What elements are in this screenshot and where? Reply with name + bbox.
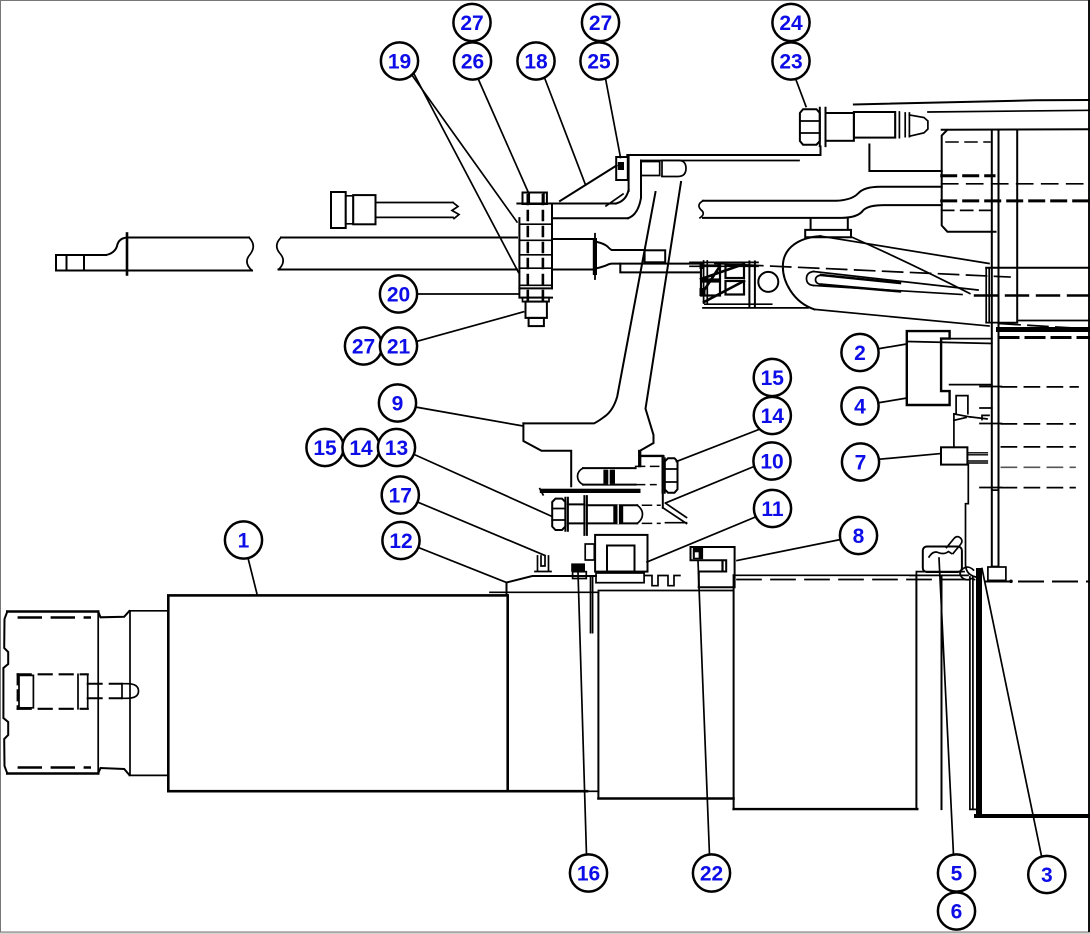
- svg-text:6: 6: [951, 901, 963, 924]
- svg-text:24: 24: [779, 12, 803, 35]
- grease hole circle: [758, 272, 778, 292]
- balloon 13: [378, 429, 415, 466]
- leader 3: [982, 569, 1042, 857]
- bolt items 23/24 top right: [800, 108, 928, 146]
- leader 9: [416, 407, 524, 426]
- balloon 19: [381, 42, 418, 79]
- leader 18: [545, 79, 585, 184]
- balloon 16: [570, 854, 607, 891]
- leader 10: [666, 467, 755, 504]
- rod left section with clevis end: [56, 234, 253, 275]
- svg-text:17: 17: [389, 485, 412, 508]
- top plate right: [854, 100, 1090, 171]
- balloon 18: [517, 42, 554, 79]
- svg-text:25: 25: [587, 51, 611, 74]
- seal black item 22 target: [693, 548, 703, 559]
- dashed centerline through eye: [715, 264, 1010, 278]
- svg-text:14: 14: [761, 405, 785, 428]
- cylinder mid sections: [598, 568, 1090, 816]
- balloon 15: [306, 429, 343, 466]
- balloon 21: [380, 327, 417, 364]
- leader 16: [578, 572, 587, 855]
- pedestal leg: [966, 465, 999, 578]
- leader 21: [417, 312, 524, 342]
- leader 7: [877, 454, 942, 460]
- balloon 12: [382, 522, 419, 559]
- svg-text:2: 2: [854, 342, 866, 365]
- leader 5: [939, 558, 954, 855]
- balloon 2: [841, 334, 878, 371]
- leader 8: [737, 540, 841, 561]
- cylinder barrel item 1: [168, 595, 507, 791]
- rod end stem: [552, 234, 700, 279]
- balloon 25: [580, 42, 617, 79]
- lever foot plate: [540, 489, 641, 495]
- balloon 3: [1028, 856, 1065, 893]
- svg-text:11: 11: [761, 498, 784, 521]
- gland band: [596, 573, 644, 583]
- balloon 14: [754, 397, 791, 434]
- balloon 10: [753, 442, 790, 479]
- stop box right: [988, 567, 1006, 580]
- retainer S-clip item 8 target: [691, 547, 735, 587]
- pin cylinder lower (item 10 target): [587, 505, 660, 523]
- balloon 15: [754, 359, 791, 396]
- svg-text:18: 18: [524, 51, 548, 74]
- trunnion bracket items 2/4: [907, 331, 992, 405]
- balloon 20: [380, 275, 417, 312]
- leader 1: [248, 558, 257, 594]
- balloon 27: [582, 4, 619, 41]
- svg-text:3: 3: [1041, 864, 1053, 887]
- stud item 17 target: [535, 556, 551, 572]
- svg-text:7: 7: [855, 452, 867, 475]
- leader 2: [877, 344, 907, 349]
- barrel collar: [129, 611, 167, 776]
- svg-text:21: 21: [387, 336, 411, 359]
- lever arm item 9: [523, 182, 681, 486]
- leader 23: [796, 79, 807, 107]
- bleeder flag item: [954, 396, 987, 448]
- hidden plug: [18, 674, 88, 709]
- svg-text:22: 22: [700, 863, 723, 886]
- balloon 1: [225, 521, 262, 558]
- leader 11: [647, 517, 756, 562]
- snap ring item 3 target: [960, 567, 974, 580]
- svg-text:13: 13: [385, 437, 408, 460]
- leader 17: [418, 502, 546, 556]
- balloon 14: [342, 429, 379, 466]
- svg-text:27: 27: [352, 336, 375, 359]
- balloon 17: [382, 476, 419, 513]
- mounting bracket right wall: [639, 451, 687, 524]
- svg-text:23: 23: [779, 51, 802, 74]
- balloon 22: [693, 854, 730, 891]
- trunnion flange block: [942, 129, 1090, 232]
- cylinder head section: [490, 576, 598, 799]
- stack bottom washers and nut: [519, 288, 552, 297]
- fork pedestal T: [805, 219, 851, 238]
- end cap assembly left: [3, 611, 138, 775]
- balloon 23: [772, 42, 809, 79]
- svg-text:20: 20: [387, 284, 410, 307]
- threaded bushing block with hatch: [690, 261, 808, 308]
- balloon 26: [454, 42, 491, 79]
- leader 12: [419, 548, 507, 583]
- dot: [1009, 580, 1013, 584]
- hidden bolt shank dashes: [528, 195, 543, 300]
- svg-text:15: 15: [313, 437, 337, 460]
- bolt item 25: [616, 157, 686, 180]
- balloon 11: [754, 490, 791, 527]
- balloon 27: [453, 4, 490, 41]
- balloon 9: [379, 384, 416, 421]
- pin cylinder upper (item 14 target): [578, 466, 659, 484]
- svg-text:8: 8: [853, 525, 865, 548]
- leader 26: [478, 79, 529, 195]
- svg-text:27: 27: [589, 12, 612, 35]
- balloon 7: [842, 443, 879, 480]
- stack body: [519, 204, 552, 288]
- leader 13: [412, 454, 551, 517]
- svg-text:9: 9: [392, 393, 404, 416]
- bracket band (lower horizontal leg): [517, 166, 641, 219]
- balloon 24: [772, 4, 809, 41]
- stack top nut and bolt end: [523, 193, 547, 205]
- svg-text:16: 16: [577, 863, 600, 886]
- gland area small parts: [535, 547, 735, 587]
- balloon 6: [938, 892, 975, 929]
- balloon 5: [938, 854, 975, 891]
- svg-text:10: 10: [760, 451, 783, 474]
- bolt mid (items 13/14/15): [552, 496, 587, 535]
- leader 4: [877, 398, 907, 403]
- castellated edge: [646, 576, 680, 586]
- leader 14a: [677, 429, 762, 462]
- leader 25: [606, 79, 621, 158]
- svg-text:26: 26: [461, 51, 484, 74]
- svg-text:27: 27: [460, 12, 483, 35]
- svg-text:4: 4: [854, 396, 866, 419]
- svg-text:15: 15: [761, 367, 785, 390]
- svg-text:1: 1: [238, 530, 250, 553]
- leader 20: [417, 293, 518, 295]
- mount plate hidden hole rows: [980, 387, 1078, 488]
- bolt at top left of stack: [331, 192, 459, 228]
- fork clevis eye and arms: [715, 236, 1090, 329]
- leader 19a: [412, 75, 518, 223]
- mount plate verticals: [975, 130, 1090, 567]
- seal black item 16 target: [571, 563, 585, 571]
- bolt right (item 14a target): [663, 458, 678, 493]
- leader 19b: [413, 72, 519, 273]
- upper fork band (right band with S-jog): [699, 187, 942, 218]
- svg-text:12: 12: [389, 530, 412, 553]
- svg-text:5: 5: [951, 863, 963, 886]
- leader 22: [698, 561, 710, 855]
- rod right section (break to spacer stack): [277, 238, 517, 270]
- svg-text:19: 19: [388, 51, 411, 74]
- spacer stack (items 18-21,25-27): [519, 193, 552, 327]
- slot in clevis: [807, 272, 814, 286]
- manifold block under bracket: [585, 535, 647, 572]
- balloon 8: [840, 517, 877, 554]
- grease fitting block items 5/6: [910, 537, 968, 576]
- svg-text:14: 14: [349, 437, 373, 460]
- fitting item 7: [941, 447, 987, 464]
- top flange plate: [627, 147, 820, 198]
- balloon 27: [345, 327, 382, 364]
- balloon 4: [841, 387, 878, 424]
